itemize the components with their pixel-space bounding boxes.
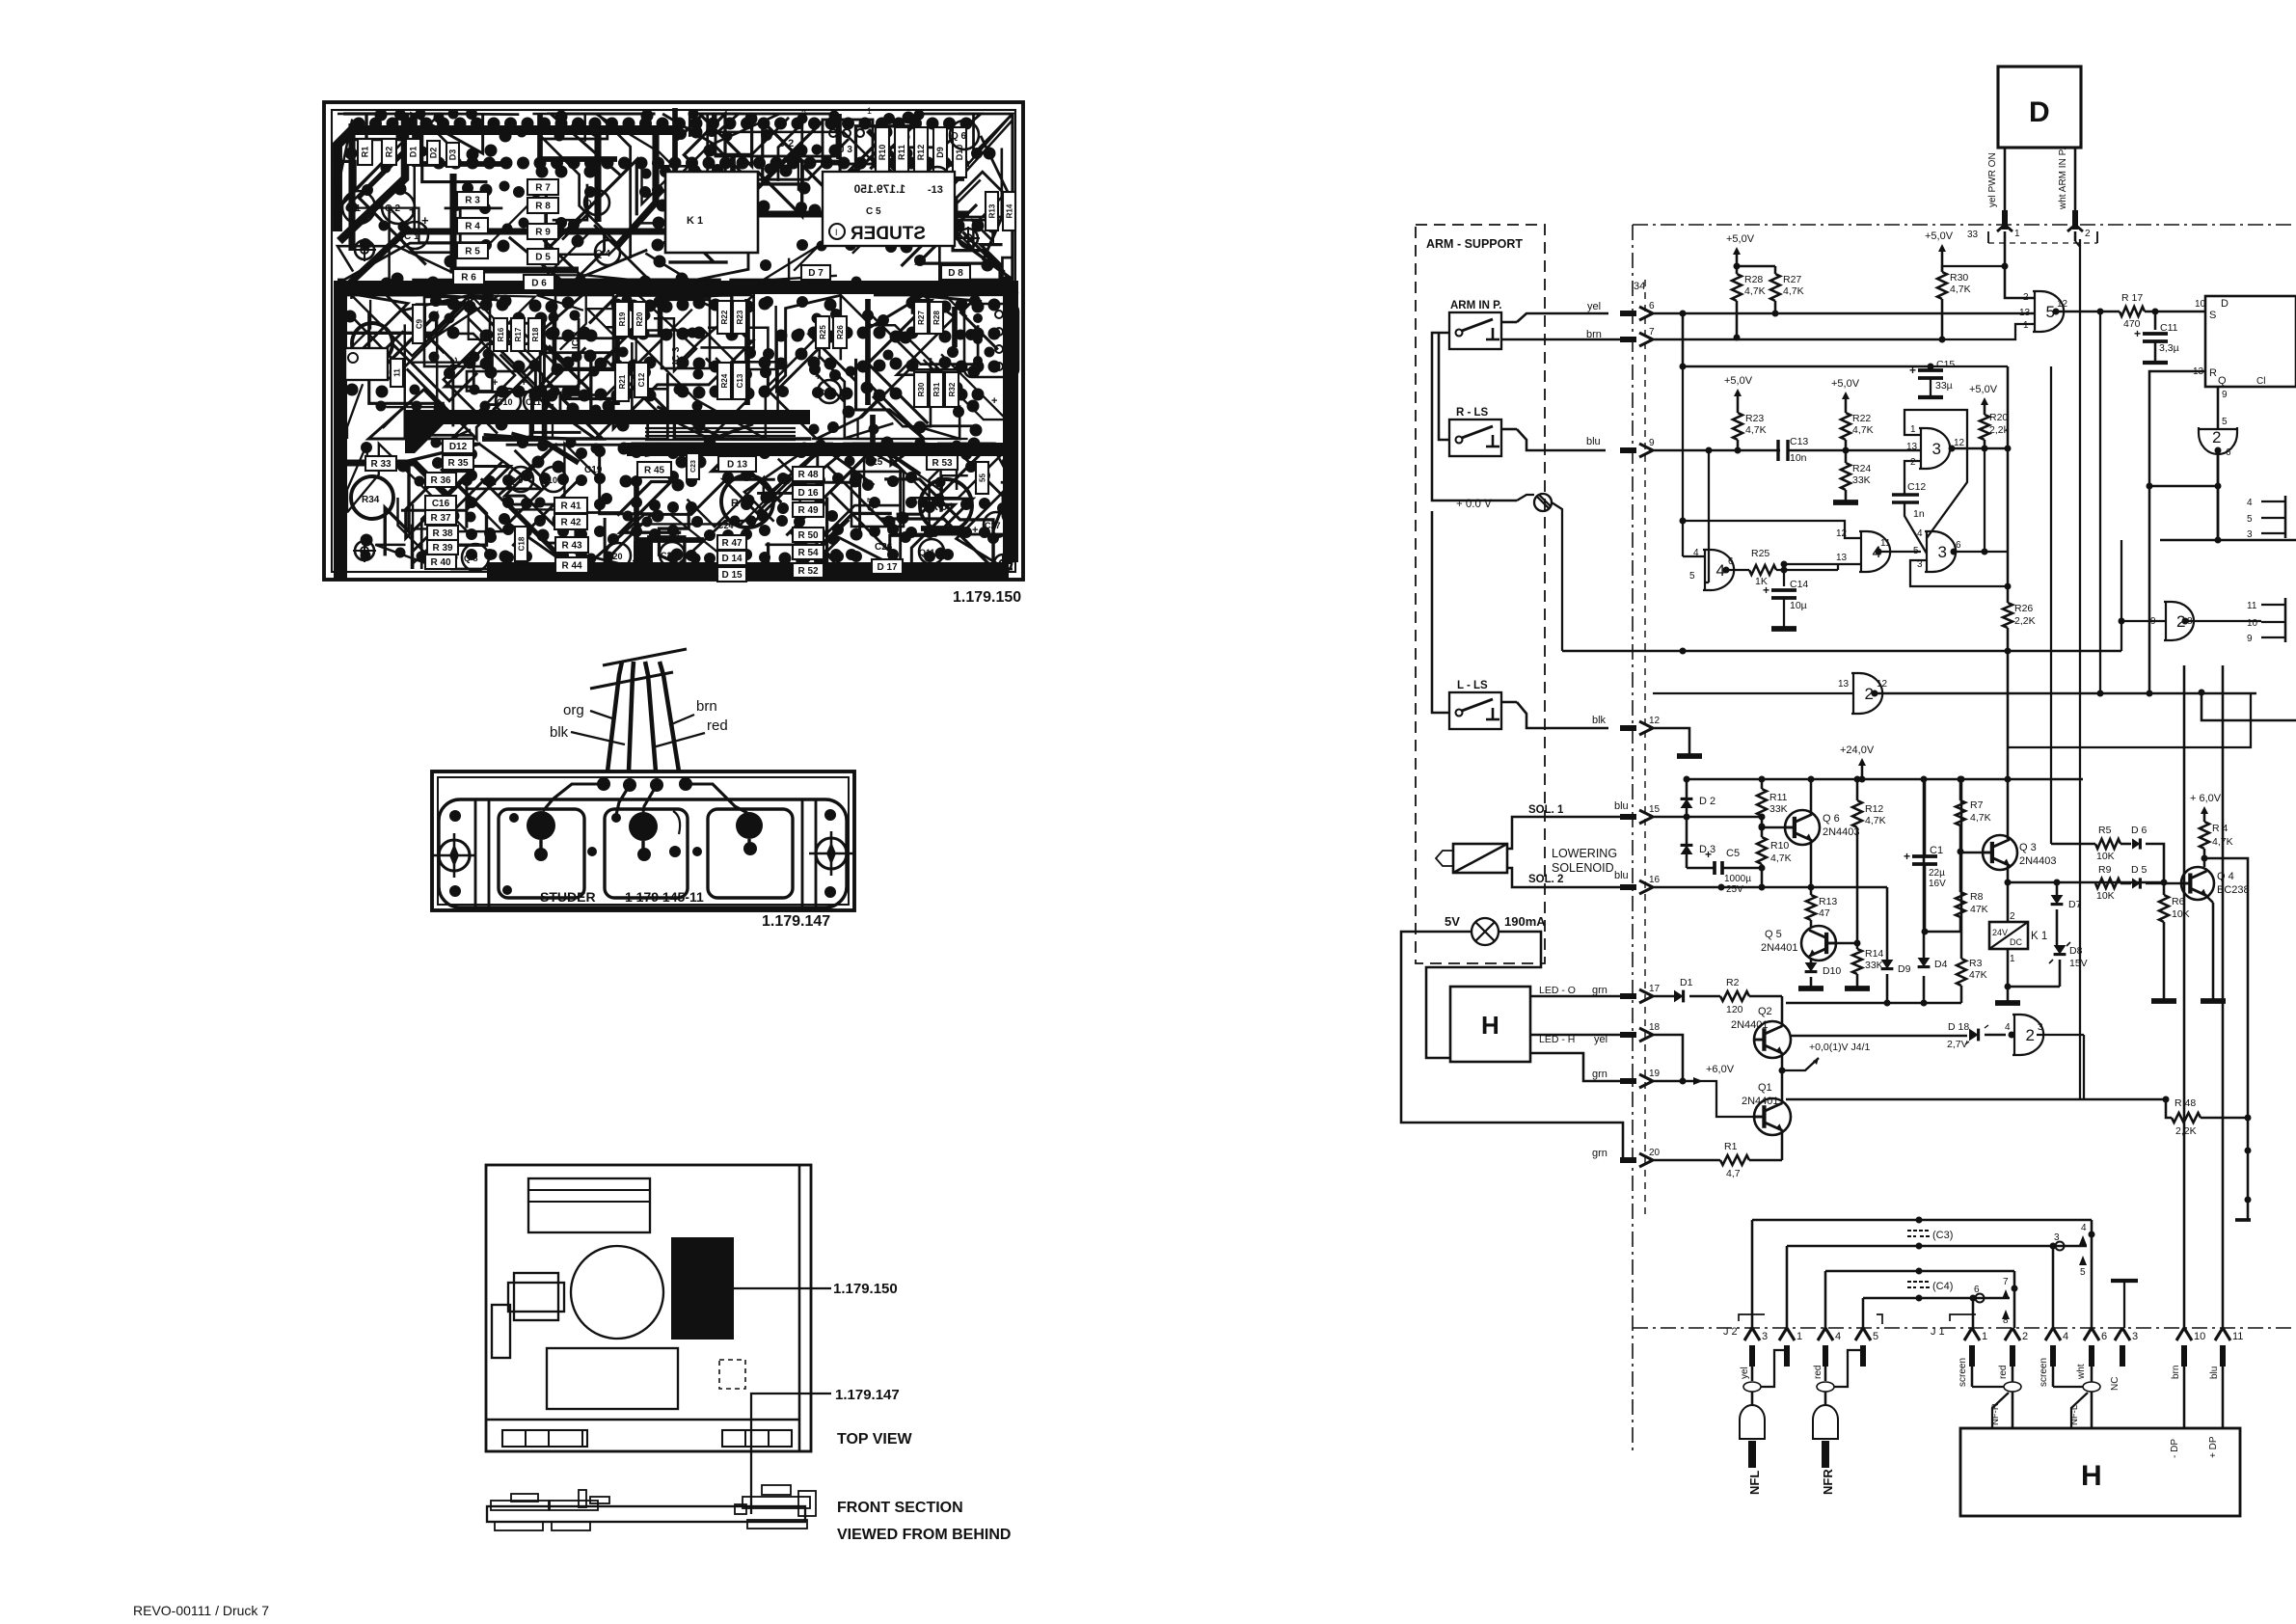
wire corner y747 (2201, 692, 2296, 720)
PCB trimmer R54 (920, 479, 972, 531)
wire blu to gate3 (1846, 449, 1921, 452)
PCB mounting hole bottom-right (994, 555, 1012, 572)
svg-text:NC: NC (2110, 1377, 2120, 1391)
svg-text:R5: R5 (2098, 825, 2112, 836)
resistor R26 2.2K (2003, 603, 2012, 628)
wire blu branch to gate4 (1708, 450, 1710, 582)
capacitor C15 33u (1928, 364, 1934, 370)
svg-text:+: + (991, 395, 997, 407)
svg-text:18: 18 (1649, 1022, 1661, 1033)
diode D3 (1686, 817, 1688, 868)
svg-text:2,7V: 2,7V (1947, 1039, 1968, 1050)
svg-text:blu: blu (1586, 436, 1601, 447)
wire Q2 emitter line from left (1781, 1069, 1786, 1071)
svg-text:6: 6 (1728, 556, 1734, 567)
svg-text:K 1: K 1 (2031, 931, 2047, 942)
svg-text:R2: R2 (385, 147, 394, 158)
svg-text:NFR: NFR (1821, 1469, 1835, 1495)
PCB capacitor C18 label (515, 527, 527, 561)
svg-text:C13: C13 (1790, 436, 1808, 447)
PCB resistor R42 label (554, 514, 587, 529)
PCB diode D2 label (427, 141, 440, 165)
ground bus under Q cluster (1786, 1002, 1961, 1005)
PCB resistor R39 label (427, 540, 458, 555)
PCB capacitor C27 (984, 512, 1009, 537)
wire from C15 node to gate5 (1931, 365, 2008, 367)
svg-text:Q 4: Q 4 (595, 249, 611, 259)
svg-text:3,3µ: 3,3µ (2159, 342, 2179, 354)
svg-text:R 35: R 35 (447, 458, 469, 469)
wire y775 horizontal (2008, 693, 2251, 747)
svg-text:+: + (1909, 364, 1916, 377)
svg-text:4,7K: 4,7K (1852, 424, 1874, 436)
svg-text:4,7K: 4,7K (1745, 424, 1767, 436)
Q4 emitter to ground (2206, 896, 2213, 903)
svg-text:3: 3 (2054, 1232, 2060, 1243)
svg-text:C15: C15 (1936, 359, 1955, 370)
svg-text:1.179.150: 1.179.150 (833, 1281, 898, 1297)
svg-text:D10: D10 (1823, 965, 1841, 977)
svg-text:NF-L: NF-L (2069, 1405, 2080, 1425)
PCB silkscreen 1.179.150-13 block (mirrored) (823, 172, 955, 246)
svg-text:10K: 10K (2096, 890, 2115, 902)
PCB resistor R30 label (914, 372, 928, 407)
D box wires to pins (2004, 148, 2007, 210)
PCB resistor R9 label (527, 224, 558, 239)
svg-text:grn: grn (1592, 985, 1607, 996)
transistor Q5 2N4401 (1801, 926, 1836, 961)
capacitor C13 10n (1776, 440, 1779, 461)
svg-text:47: 47 (1819, 907, 1830, 919)
svg-text:R25: R25 (1751, 548, 1769, 559)
PCB capacitor C16 label (425, 496, 456, 510)
svg-text:+: + (1904, 850, 1910, 863)
PCB resistor R35 label (443, 455, 473, 470)
PCB capacitor C7 block (851, 472, 904, 527)
PCB resistor R49 label (793, 502, 824, 517)
PCB diode D7 label (801, 265, 830, 280)
svg-text:R11: R11 (897, 145, 906, 160)
resistor R3 47K (1960, 986, 1963, 1003)
svg-text:R24: R24 (1852, 463, 1871, 474)
wire brn line (1653, 338, 1942, 341)
svg-text:3: 3 (801, 109, 806, 119)
+24.0V supply arrow (1861, 762, 1864, 771)
PCB resistor R48 label (793, 467, 824, 481)
front panel head window 1 (499, 809, 584, 898)
transistor Q6 2N4403 (1785, 810, 1820, 845)
cable break lines (590, 672, 673, 689)
svg-text:R28: R28 (1744, 274, 1763, 285)
PCB resistor R16 label (494, 318, 507, 351)
front panel screw right (816, 838, 847, 869)
DP wires into H (2183, 1350, 2186, 1428)
svg-text:C 7: C 7 (866, 498, 876, 511)
svg-text:15V: 15V (2069, 958, 2088, 969)
svg-text:D4: D4 (1934, 959, 1948, 970)
svg-text:3: 3 (2038, 1022, 2043, 1033)
PCB resistor R51 label (793, 545, 824, 559)
svg-text:R 5: R 5 (465, 247, 480, 257)
wire lamp left to pin 20 (1401, 932, 1634, 1160)
svg-text:R30: R30 (1950, 272, 1968, 284)
front panel head window 2 (605, 809, 688, 898)
svg-text:C26: C26 (875, 542, 893, 553)
diode D6 (2132, 838, 2140, 849)
svg-text:R 39: R 39 (432, 543, 453, 554)
svg-text:LOWERING: LOWERING (1552, 847, 1617, 860)
flip-flop D box (2205, 296, 2296, 387)
PCB transistor Q1 (342, 191, 375, 224)
svg-text:R8: R8 (1970, 891, 1984, 903)
Q4 collector (2204, 858, 2248, 1219)
svg-text:R9: R9 (2098, 864, 2112, 876)
top view bottom strip right (722, 1430, 792, 1447)
wire R48 2.2K (2166, 1099, 2172, 1118)
PCB capacitor C9 label (413, 305, 425, 343)
front panel inner rounded frame (439, 799, 847, 907)
svg-text:TOP VIEW: TOP VIEW (837, 1431, 913, 1448)
PCB resistor R2 label (382, 139, 396, 165)
svg-text:R2: R2 (1726, 977, 1740, 988)
svg-text:C16: C16 (432, 499, 450, 509)
svg-text:4: 4 (2247, 498, 2253, 508)
svg-text:2,2K: 2,2K (2014, 615, 2036, 627)
PCB capacitor C21 (634, 541, 653, 576)
PCB resistor R13 label (986, 192, 998, 230)
R30 tap to D wire (1942, 266, 2005, 272)
leader line to 1.179.147 (751, 1394, 831, 1408)
PCB resistor R21 label (615, 363, 629, 401)
svg-text:5: 5 (2080, 1267, 2086, 1278)
svg-text:D 8: D 8 (948, 268, 963, 279)
capacitor C5 1000u 25V (1687, 867, 1715, 870)
PCB resistor R41 label (554, 498, 587, 513)
NF-L cable (2052, 1350, 2055, 1387)
phantom capacitor C4 (1824, 1271, 1827, 1328)
PCB transistor Q4 (595, 240, 620, 265)
PCB resistor R12 label (914, 127, 928, 177)
resistor R6 10K (2163, 883, 2166, 895)
svg-text:C19: C19 (584, 465, 603, 475)
svg-text:- DP: - DP (2170, 1439, 2180, 1458)
svg-text:6: 6 (1956, 540, 1961, 551)
diode D1 (1653, 995, 1674, 998)
NC pin terminator (2111, 1279, 2138, 1283)
svg-text:R 53: R 53 (932, 458, 953, 469)
PCB resistor R43 label (555, 537, 588, 553)
schematic frame dash-dot boundary (1633, 224, 2296, 226)
svg-text:I: I (835, 228, 838, 237)
svg-text:grn: grn (1592, 1148, 1607, 1159)
svg-text:C 5: C 5 (866, 206, 881, 217)
svg-text:10K: 10K (2096, 851, 2115, 862)
svg-text:+24,0V: +24,0V (1840, 744, 1875, 756)
svg-text:D 13: D 13 (727, 460, 748, 471)
svg-text:6: 6 (1974, 1285, 1980, 1295)
wire yel line (1653, 312, 2035, 315)
svg-text:2: 2 (2022, 1331, 2028, 1342)
svg-text:D1: D1 (409, 147, 419, 158)
capacitor C1 22u 16V (1912, 854, 1937, 858)
svg-text:1: 1 (2014, 229, 2020, 239)
PCB resistor R40 label (425, 555, 456, 569)
svg-text:6: 6 (1649, 301, 1655, 311)
svg-text:25V: 25V (1726, 884, 1743, 895)
PCB trimmer R34 (351, 476, 393, 519)
svg-text:11: 11 (2232, 1331, 2243, 1342)
PCB mounting hole top-left (355, 240, 374, 259)
svg-text:C 2: C 2 (560, 279, 576, 289)
svg-text:SOLENOID: SOLENOID (1552, 861, 1614, 875)
svg-text:red: red (707, 717, 728, 734)
svg-text:R 54: R 54 (931, 501, 954, 513)
wire pin16 line (1653, 886, 1887, 889)
PCB diode D8 label (941, 265, 970, 280)
svg-text:9: 9 (2222, 390, 2228, 400)
misc long verticals (2120, 540, 2122, 651)
svg-text:2,2K: 2,2K (2175, 1125, 2197, 1137)
svg-text:blu: blu (1614, 870, 1629, 881)
svg-text:blu: blu (2209, 1367, 2220, 1379)
PCB resistor R11 label (895, 127, 908, 177)
resistor R7 4.7K (1959, 779, 1962, 800)
svg-text:R 42: R 42 (560, 518, 581, 528)
svg-text:J 2: J 2 (779, 138, 794, 149)
PCB trimmer R46 (721, 475, 773, 528)
svg-text:17: 17 (1649, 984, 1661, 994)
wire D pin2 down (2074, 231, 2077, 241)
PCB capacitors C10 C11 (496, 389, 521, 414)
svg-text:1: 1 (2010, 954, 2015, 964)
resistor R25 1K (1726, 569, 1749, 571)
svg-text:R 45: R 45 (644, 466, 665, 476)
svg-text:STUDER: STUDER (851, 224, 926, 244)
svg-text:C9: C9 (415, 318, 423, 329)
resistor R14 33K (1836, 942, 1857, 945)
svg-text:D: D (2029, 96, 2050, 128)
svg-text:C12: C12 (637, 372, 646, 387)
Q1 collector emitter (1781, 1070, 1784, 1103)
svg-text:IC 2: IC 2 (571, 331, 581, 349)
svg-text:15: 15 (1649, 804, 1661, 815)
resistor R24 33K (1841, 463, 1850, 490)
PCB IC1 outline (424, 297, 490, 366)
svg-text:+ 6,0V: + 6,0V (2190, 793, 2222, 804)
svg-text:C24: C24 (717, 521, 734, 530)
PCB resistor R25 label (816, 316, 829, 348)
svg-text:3: 3 (1932, 440, 1941, 458)
svg-text:C10: C10 (497, 397, 513, 407)
PCB resistor R4 label (457, 218, 488, 233)
svg-text:5: 5 (2222, 417, 2228, 427)
svg-text:R25: R25 (819, 325, 827, 339)
resistor R2 120 (1720, 991, 1749, 1001)
PCB IC2 outline (555, 295, 613, 368)
PCB diode D15 label (717, 567, 746, 582)
svg-text:Q 9: Q 9 (509, 475, 524, 485)
PCB capacitor C8 can (352, 323, 392, 364)
PCB transistor Q6 (950, 121, 979, 149)
svg-text:Q: Q (2218, 375, 2227, 387)
top view bottom strip left (502, 1430, 587, 1447)
PCB resistor R3 label (457, 192, 488, 207)
svg-text:screen: screen (2039, 1358, 2049, 1387)
svg-text:C5: C5 (1726, 848, 1740, 859)
wire solenoid to pins (1507, 817, 1634, 849)
PCB capacitor C12 label (635, 363, 648, 397)
svg-text:R23: R23 (1745, 413, 1764, 424)
top view left bracket (492, 1305, 510, 1358)
svg-text:8: 8 (2003, 1315, 2009, 1326)
diode D5 (2132, 878, 2140, 888)
svg-text:12: 12 (1877, 679, 1888, 690)
svg-text:190mA: 190mA (1504, 914, 1546, 929)
svg-text:L - LS: L - LS (1457, 680, 1488, 691)
svg-text:120: 120 (1726, 1004, 1743, 1015)
PCB diode D3 label (446, 143, 459, 167)
PCB mounting hole top-right (959, 229, 978, 248)
wire pin12 to ground (1653, 728, 1689, 754)
svg-text:Q 6: Q 6 (1823, 813, 1840, 825)
svg-text:+: + (521, 377, 527, 389)
svg-text:10: 10 (2247, 618, 2258, 629)
PCB capacitor C14 (818, 380, 841, 403)
svg-text:C21: C21 (632, 558, 640, 573)
svg-text:R12: R12 (1865, 803, 1883, 815)
svg-text:Cl: Cl (2256, 376, 2265, 387)
top view chassis outline (486, 1165, 811, 1451)
front section side view (487, 1506, 805, 1522)
svg-text:1.179.150: 1.179.150 (953, 589, 1021, 606)
svg-text:2: 2 (2010, 911, 2015, 922)
PCB resistor R31 label (930, 372, 943, 407)
svg-text:7: 7 (2003, 1277, 2009, 1287)
svg-text:Q 5: Q 5 (1765, 929, 1782, 940)
svg-text:R 37: R 37 (430, 513, 451, 524)
wire gate3-2 output (1954, 551, 2008, 553)
resistor R8 47K (1956, 892, 1965, 917)
wire third line (1683, 365, 1931, 368)
svg-text:1: 1 (1796, 1331, 1802, 1342)
svg-text:1.179.147: 1.179.147 (835, 1387, 900, 1403)
svg-text:R22: R22 (720, 310, 729, 324)
+24V bus (1687, 778, 2083, 781)
resistor R10 4.7K (1761, 826, 1764, 837)
svg-text:R 6: R 6 (461, 273, 476, 284)
front panel divider lines (474, 799, 477, 907)
top view capstan circle (571, 1246, 663, 1339)
svg-text:yel: yel (1587, 301, 1601, 312)
svg-text:C18: C18 (517, 536, 526, 551)
PCB transistor Q5 (925, 167, 950, 192)
svg-text:+: + (972, 525, 978, 536)
PCB resistor R27 label (914, 302, 928, 334)
NF-R cable (1971, 1350, 1974, 1387)
svg-text:blk: blk (550, 724, 569, 741)
svg-text:DC: DC (2010, 937, 2022, 947)
svg-text:Q 6: Q 6 (951, 131, 967, 142)
wire H bottom to pin19 (1530, 1053, 1634, 1081)
svg-text:33K: 33K (1852, 474, 1871, 486)
svg-text:12: 12 (2057, 299, 2068, 310)
svg-text:R22: R22 (1852, 413, 1871, 424)
svg-text:D1: D1 (1680, 977, 1693, 988)
svg-text:3: 3 (2132, 1331, 2138, 1342)
svg-text:R 36: R 36 (430, 475, 451, 486)
svg-text:IC: IC (449, 357, 460, 366)
svg-text:FRONT SECTION: FRONT SECTION (837, 1500, 963, 1516)
PCB resistor R53 label (927, 455, 958, 470)
svg-text:1.179.150: 1.179.150 (853, 182, 905, 196)
svg-text:33K: 33K (1769, 803, 1788, 815)
svg-text:D 15: D 15 (721, 570, 743, 581)
PCB bus traces (645, 427, 796, 429)
wire gate5 inputs (1942, 324, 2035, 339)
PCB resistor R18 label (528, 318, 542, 351)
svg-text:H: H (1481, 1011, 1499, 1040)
svg-text:red: red (1998, 1366, 2009, 1379)
svg-text:+: + (421, 213, 429, 228)
svg-text:R 46: R 46 (731, 498, 753, 509)
svg-text:9: 9 (1649, 438, 1655, 448)
svg-text:(C4): (C4) (1932, 1281, 1953, 1292)
svg-text:R 50: R 50 (797, 530, 819, 541)
svg-text:+: + (2134, 327, 2141, 340)
svg-text:C13: C13 (736, 373, 744, 388)
svg-text:1: 1 (867, 106, 872, 116)
FF R input wire (2149, 371, 2205, 693)
cross wires gates (1927, 448, 1967, 538)
NFL plug (1751, 1350, 1754, 1381)
svg-text:3: 3 (1762, 1331, 1768, 1342)
wire brn from D-box area (1503, 338, 1505, 340)
svg-text:R 38: R 38 (432, 528, 453, 539)
svg-text:R10: R10 (878, 145, 887, 161)
top view pcb black rect 1.179.150 (671, 1237, 734, 1340)
svg-text:4: 4 (1917, 528, 1923, 539)
svg-text:R28: R28 (932, 311, 941, 325)
wire y1140 long bus (1786, 1098, 2166, 1101)
svg-text:Q11: Q11 (919, 548, 935, 557)
diode D7 (2056, 882, 2059, 895)
svg-text:R34: R34 (362, 495, 380, 505)
svg-text:R1: R1 (1724, 1141, 1738, 1152)
capacitor C12 1n cross-coupling (1892, 493, 1919, 496)
svg-text:+5,0V: +5,0V (1831, 378, 1860, 390)
svg-text:R11: R11 (1769, 792, 1788, 803)
diode D4 (1923, 976, 1926, 1003)
wire pin18 to +6.0V (1653, 1035, 1683, 1081)
svg-text:R27: R27 (917, 311, 926, 325)
front panel head window 3 (708, 809, 793, 898)
resistor R11 33K (1759, 776, 1766, 783)
svg-text:Q 4: Q 4 (2217, 871, 2234, 882)
diode D10 (1810, 959, 1813, 963)
PCB thick middle band (334, 281, 1018, 294)
svg-text:4,7K: 4,7K (1865, 815, 1886, 826)
front panel screw left (439, 840, 470, 871)
svg-text:2N4401: 2N4401 (1731, 1019, 1769, 1031)
svg-text:5: 5 (2247, 514, 2253, 525)
svg-text:C22: C22 (661, 551, 677, 560)
svg-text:org: org (563, 702, 584, 718)
connector pin 18 (1639, 1028, 1653, 1035)
zener D18 2.7V (1791, 1035, 1967, 1038)
svg-text:16V: 16V (1929, 879, 1946, 889)
svg-text:Q2: Q2 (1758, 1006, 1772, 1017)
svg-text:2N4403: 2N4403 (1823, 826, 1860, 838)
